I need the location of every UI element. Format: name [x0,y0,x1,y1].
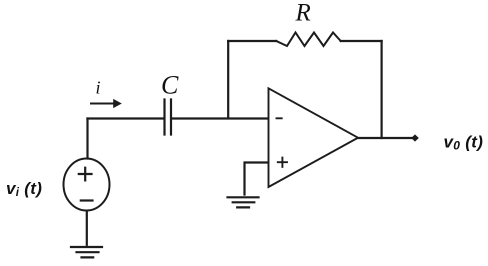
wire non-inverting stub [245,163,269,195]
wire input horizontal from source corner to capacitor [88,117,164,119]
svg-text:i: i [96,78,101,98]
node output junction diamond [411,134,419,141]
voltage source plus marker [79,168,92,181]
voltage source minus marker [81,199,93,201]
wire feedback left vertical [227,41,229,118]
op-amp inverting input marker (-) [277,117,282,119]
svg-text:v0 (t): v0 (t) [444,133,484,153]
wire feedback right vertical down to output [381,41,383,138]
wire output [358,137,414,139]
voltage source V1 [64,159,110,211]
wire left vertical from corner down to source top [86,119,88,159]
ground at op-amp non-inverting input [228,197,259,207]
svg-text:C: C [161,71,179,100]
resistor R [276,33,340,47]
wire feedback top-left horizontal [228,40,276,42]
op-amp U1 [269,88,359,187]
wire source bottom to ground [86,211,88,245]
current arrow i line [91,103,114,105]
capacitor C [165,100,172,135]
wire capacitor to op-amp inverting input [172,117,268,119]
current arrow i head [113,99,122,108]
wire feedback top-right horizontal [341,40,382,42]
op-amp non-inverting input marker (+) [278,158,287,167]
svg-text:vi (t): vi (t) [6,179,42,199]
svg-text:R: R [295,0,311,27]
ground below source [71,247,102,257]
